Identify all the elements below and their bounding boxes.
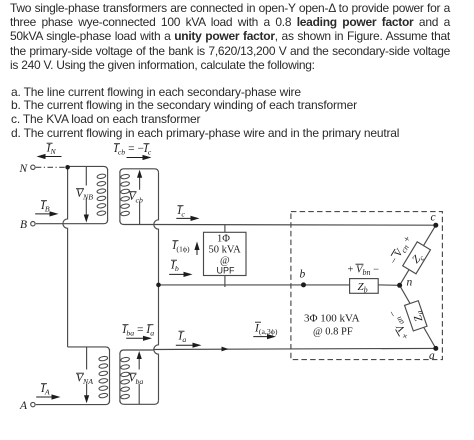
arrowhead I_B (right) [50,211,59,216]
bar V_bn [356,263,364,265]
wire A to T2 primary bottom [36,401,110,405]
stub load top [224,225,226,233]
svg-text:VNA: VNA [76,373,93,387]
wire b to Zb [304,284,350,286]
wire bottom secondary bottom to rail [120,400,159,404]
svg-text:B: B [20,219,27,231]
bar I_a2 [148,324,154,326]
bar I_A [41,383,47,385]
bar I_b [171,259,177,261]
bar V_cb [129,191,137,193]
T1 primary winding loops [97,174,130,400]
wire n to a diagonal [400,285,436,348]
arrowhead I_N (left) [37,154,46,159]
svg-text:Ia: Ia [178,331,187,345]
arrowhead V_cb (up) [137,170,142,178]
wire left rail N down with hop over B wire [63,167,68,347]
wire n to c diagonal [400,225,436,285]
label V_an [387,307,414,341]
svg-text:50 kVA: 50 kVA [209,245,242,256]
load box 1-phase 50kVA [204,232,247,275]
transformer T1 secondary winding vertical [119,171,121,222]
shaft I_a [176,344,195,346]
svg-text:Iba = Ia: Iba = Ia [122,324,155,338]
arrowhead I_a (right) [193,343,202,348]
transformer T1 primary winding vertical [107,169,109,221]
bar I_c(2) [144,143,150,145]
shaft I_A [36,396,54,398]
wire T2 secondary top to a wire [120,350,153,354]
svg-text:@ 0.8 PF: @ 0.8 PF [313,327,353,338]
bar V_NA [76,372,84,374]
b phase wire [159,284,304,286]
svg-text:N: N [19,163,29,175]
svg-text:b: b [300,269,306,281]
neutral dash-dot wire [36,166,65,168]
wire B to T1 primary bottom [36,220,108,224]
svg-text:Icb = −Ic: Icb = −Ic [113,143,152,157]
wire rail corner to T2 primary top [68,347,110,351]
arrowhead I_ba (right) [143,336,152,341]
svg-text:c: c [431,212,436,224]
T2 primary winding loops [99,356,108,399]
label Zc [410,250,427,267]
bar V_an [396,329,400,336]
node a dot [433,346,438,351]
svg-text:IA: IA [40,383,50,397]
overbars for I and V labels [41,143,400,384]
arrowhead I_b (right) [184,272,193,277]
node N junction dot [65,165,70,170]
V_NA arrow line [86,347,88,397]
svg-text:3Φ 100 kVA: 3Φ 100 kVA [304,313,360,325]
impedance Zc [403,242,431,274]
svg-text:I(a,3ϕ): I(a,3ϕ) [254,323,278,337]
svg-text:Ic: Ic [177,205,186,219]
shaft I_B [35,213,52,215]
V_cb arrow line [139,176,141,225]
bar I_a [179,330,185,332]
T1 secondary winding loops [120,174,129,216]
V_NB arrow line [85,166,87,216]
shaft I_ba [126,337,145,339]
svg-text:Zb: Zb [358,281,368,295]
node c dot [433,223,438,228]
transformer T2 secondary winding vertical [119,353,121,402]
wire Zb to n [378,284,399,286]
wire T1 secondary bottom = c wire start [120,221,153,225]
impedance Zb [350,279,379,294]
bar I_cb [114,143,120,145]
bar I_B [41,200,47,202]
c phase wire [153,224,436,227]
arrowhead I_a3ph (right) [267,334,276,339]
node n dot [397,283,402,288]
bar V_cn [391,249,395,256]
terminal A [31,402,35,406]
shaft I_cb [127,157,146,159]
svg-text:n: n [407,277,413,289]
svg-text:IN: IN [46,143,57,157]
svg-text:+ Vbn −: + Vbn − [348,265,380,278]
arrowhead I_1ph (up) [194,242,199,251]
svg-text:A: A [19,400,28,412]
terminal N [31,165,35,169]
svg-text:Vcb: Vcb [129,191,143,205]
svg-text:a: a [429,350,435,362]
svg-text:I(1ϕ): I(1ϕ) [172,240,190,254]
wire T1 secondary top to right rail [120,169,159,173]
shaft I_c [176,217,193,219]
shaft I_1ph [196,245,198,256]
arrowhead V_ba (up) [137,351,142,359]
bar I_N [47,142,53,144]
bar V_ba [129,372,137,374]
shaft I_N [43,156,62,158]
impedance Za [405,301,428,331]
shaft I_a3ph [253,336,269,338]
arrowhead I_cb (right) [143,155,152,160]
node dot rail-b junction [156,283,161,288]
wire right rail with hops over c and a wires [154,173,159,400]
V_ba arrow line [138,357,140,404]
shaft I_b [169,273,186,275]
arrowhead V_NB (down) [84,215,89,223]
bar I_1ph [173,240,179,242]
arrowhead I_A (right) [52,394,61,399]
dashed box 3-phase load [291,212,443,360]
transformer T2 primary winding vertical [109,349,111,403]
wire N to T1 primary top [68,166,108,170]
label Za [411,309,427,323]
terminal B [31,222,35,226]
bar I_a3ph [255,321,261,323]
a phase wire [153,348,436,349]
svg-text:Ib: Ib [170,260,179,274]
svg-text:IB: IB [40,200,50,214]
bar I_c [178,205,184,207]
stub load bottom [224,276,226,288]
svg-text:UPF: UPF [217,266,236,276]
node b dot [301,282,306,287]
svg-text:Vba: Vba [129,373,144,387]
arrowhead on a wire [222,347,229,352]
arrowhead V_NA (down) [84,395,89,403]
bar V_NB [76,188,84,190]
svg-text:1Φ: 1Φ [217,234,230,245]
label V_cn [388,234,415,267]
T2 secondary winding loops [120,357,129,400]
arrowhead I_c (right) [191,216,200,221]
bar I_ba [123,324,129,326]
svg-text:VNB: VNB [76,188,93,202]
